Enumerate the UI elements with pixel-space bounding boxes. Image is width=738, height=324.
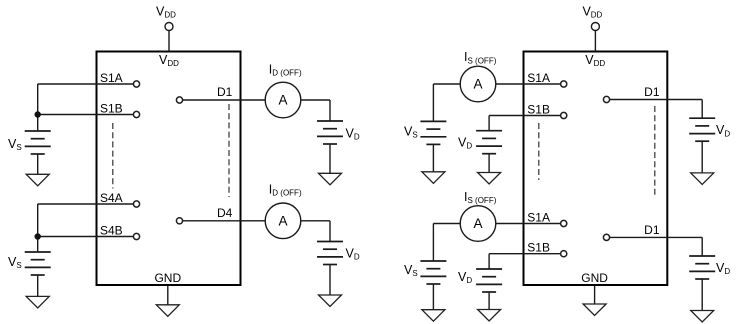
svg-text:VD: VD (346, 247, 360, 262)
svg-text:A: A (278, 93, 287, 108)
svg-text:VS: VS (8, 255, 22, 270)
svg-text:D1: D1 (644, 85, 660, 99)
svg-text:GND: GND (581, 271, 608, 285)
svg-text:ID (OFF): ID (OFF) (269, 182, 302, 197)
svg-text:A: A (473, 77, 482, 92)
svg-text:VS: VS (404, 125, 418, 140)
svg-text:VDD: VDD (582, 5, 602, 20)
svg-text:S1B: S1B (527, 241, 550, 255)
svg-text:IS (OFF): IS (OFF) (464, 50, 497, 65)
svg-text:VS: VS (404, 263, 418, 278)
svg-text:S1A: S1A (527, 211, 550, 225)
svg-text:VS: VS (8, 137, 22, 152)
svg-text:D1: D1 (217, 85, 233, 99)
svg-text:VD: VD (458, 136, 472, 151)
svg-text:S1B: S1B (527, 103, 550, 117)
svg-text:A: A (473, 216, 482, 231)
svg-text:VD: VD (716, 261, 730, 276)
svg-text:S4B: S4B (100, 224, 123, 238)
svg-text:S4A: S4A (100, 191, 123, 205)
svg-text:GND: GND (154, 271, 181, 285)
svg-text:VDD: VDD (585, 53, 605, 68)
svg-text:S1A: S1A (527, 71, 550, 85)
svg-text:D1: D1 (644, 223, 660, 237)
svg-text:VDD: VDD (159, 53, 179, 68)
svg-text:S1B: S1B (100, 102, 123, 116)
svg-text:ID (OFF): ID (OFF) (269, 63, 302, 78)
svg-text:VD: VD (716, 123, 730, 138)
svg-text:VDD: VDD (156, 5, 176, 20)
svg-text:IS (OFF): IS (OFF) (464, 190, 497, 205)
svg-text:S1A: S1A (100, 71, 123, 85)
svg-text:VD: VD (346, 127, 360, 142)
svg-text:D4: D4 (217, 206, 233, 220)
svg-text:A: A (278, 214, 287, 229)
svg-text:VD: VD (458, 270, 472, 285)
